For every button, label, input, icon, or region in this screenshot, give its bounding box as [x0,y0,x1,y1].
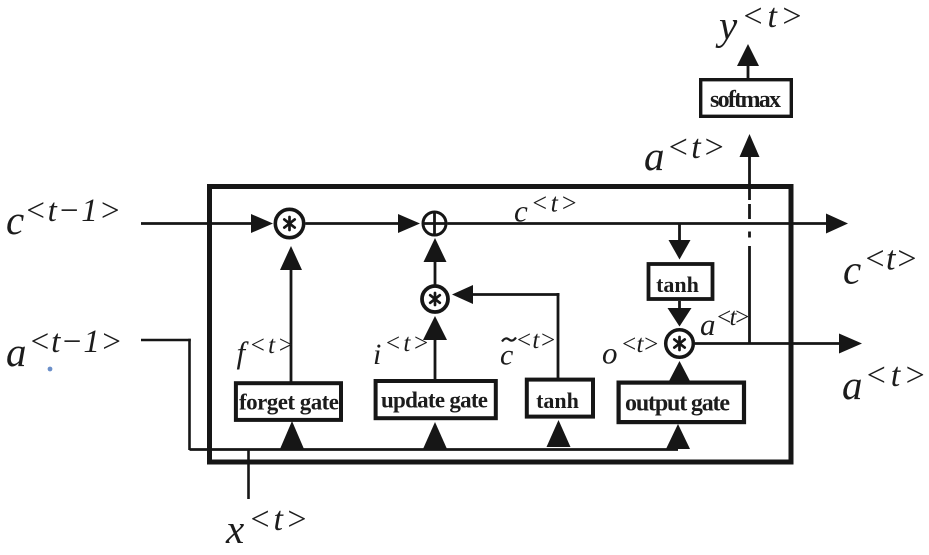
svg-text:forget gate: forget gate [239,390,339,415]
output gate box [619,383,744,423]
multiply node (forget) [275,209,303,237]
svg-text:a<t−1>: a<t−1> [6,324,123,375]
forget gate box [236,383,341,420]
svg-text:tanh: tanh [536,388,579,413]
tilde of c~ [502,338,516,342]
wire input feed [190,448,679,451]
svg-text:a<t>: a<t> [644,129,726,179]
wire forget gate to mult [290,268,293,382]
wire candidate horizontal into update-mult [472,293,560,296]
arrowhead a out [839,334,862,354]
wire a branch to softmax (solid lower) [748,246,751,344]
wire c^t to output [448,222,830,225]
svg-text:o<t>: o<t> [602,331,660,371]
arrowhead c input [251,214,273,233]
wire a branch dash [748,204,751,219]
wire a branch dot [748,232,751,238]
svg-text:update gate: update gate [381,388,488,413]
wire tanh to output-mult [678,301,681,310]
multiply node (output) [666,330,694,358]
svg-text:x<t>: x<t> [225,501,308,552]
LSTM cell box [210,187,792,463]
wire forget-mult to add node [306,222,401,225]
arrowhead into softmax [740,134,760,157]
arrowhead up into add node [424,238,447,262]
arrowhead into add node [398,214,420,233]
arrowhead feed to output gate [666,424,690,449]
svg-text:c<t>: c<t> [500,327,556,372]
svg-text:a<t>: a<t> [700,304,751,342]
arrowhead softmax to y [737,44,759,66]
svg-text:output gate: output gate [625,391,730,417]
update gate box [376,381,496,418]
wire a branch solid upper [748,156,751,200]
arrowhead tanh to output-mult [668,308,692,327]
multiply node (update) [422,286,448,312]
svg-text:y<t>: y<t> [715,0,803,48]
wire candidate vertical from tanh2 [557,293,560,378]
arrowhead update gate to mult [423,316,447,340]
arrowhead feed to update gate [423,422,447,449]
wire down to tanh [678,224,681,243]
arrowhead c out [826,214,848,234]
svg-text:f<t>: f<t> [237,332,295,370]
svg-text:c<t>: c<t> [843,241,918,293]
wire a^<t-1> horizontal [141,339,191,342]
wire c input [141,222,252,225]
arrowhead feed to forget gate [280,421,304,449]
arrowhead forget gate to mult [280,246,302,270]
arrowhead feed to tanh2 [547,420,571,447]
add node [422,211,447,236]
svg-text:c<t−1>: c<t−1> [6,193,121,243]
svg-text:softmax: softmax [710,87,781,113]
arrowhead left into update-mult [452,285,473,304]
arrowhead output gate to mult [668,361,691,383]
wire update gate to mult [434,339,437,379]
arrowhead into tanh [669,240,691,260]
wire softmax to y [747,65,750,78]
stray blue dot [48,367,53,372]
tanh box (candidate) [527,380,593,417]
wire a^t out [695,342,841,345]
wire a^<t-1> vertical [188,339,191,450]
softmax box [701,80,792,117]
svg-text:a<t>: a<t> [842,357,927,408]
wire x^<t> vertical [247,450,250,500]
tanh box (cell output) [649,264,713,299]
wire add node up from update-mult [434,262,437,285]
svg-text:tanh: tanh [656,272,699,297]
svg-text:i<t>: i<t> [373,330,429,371]
